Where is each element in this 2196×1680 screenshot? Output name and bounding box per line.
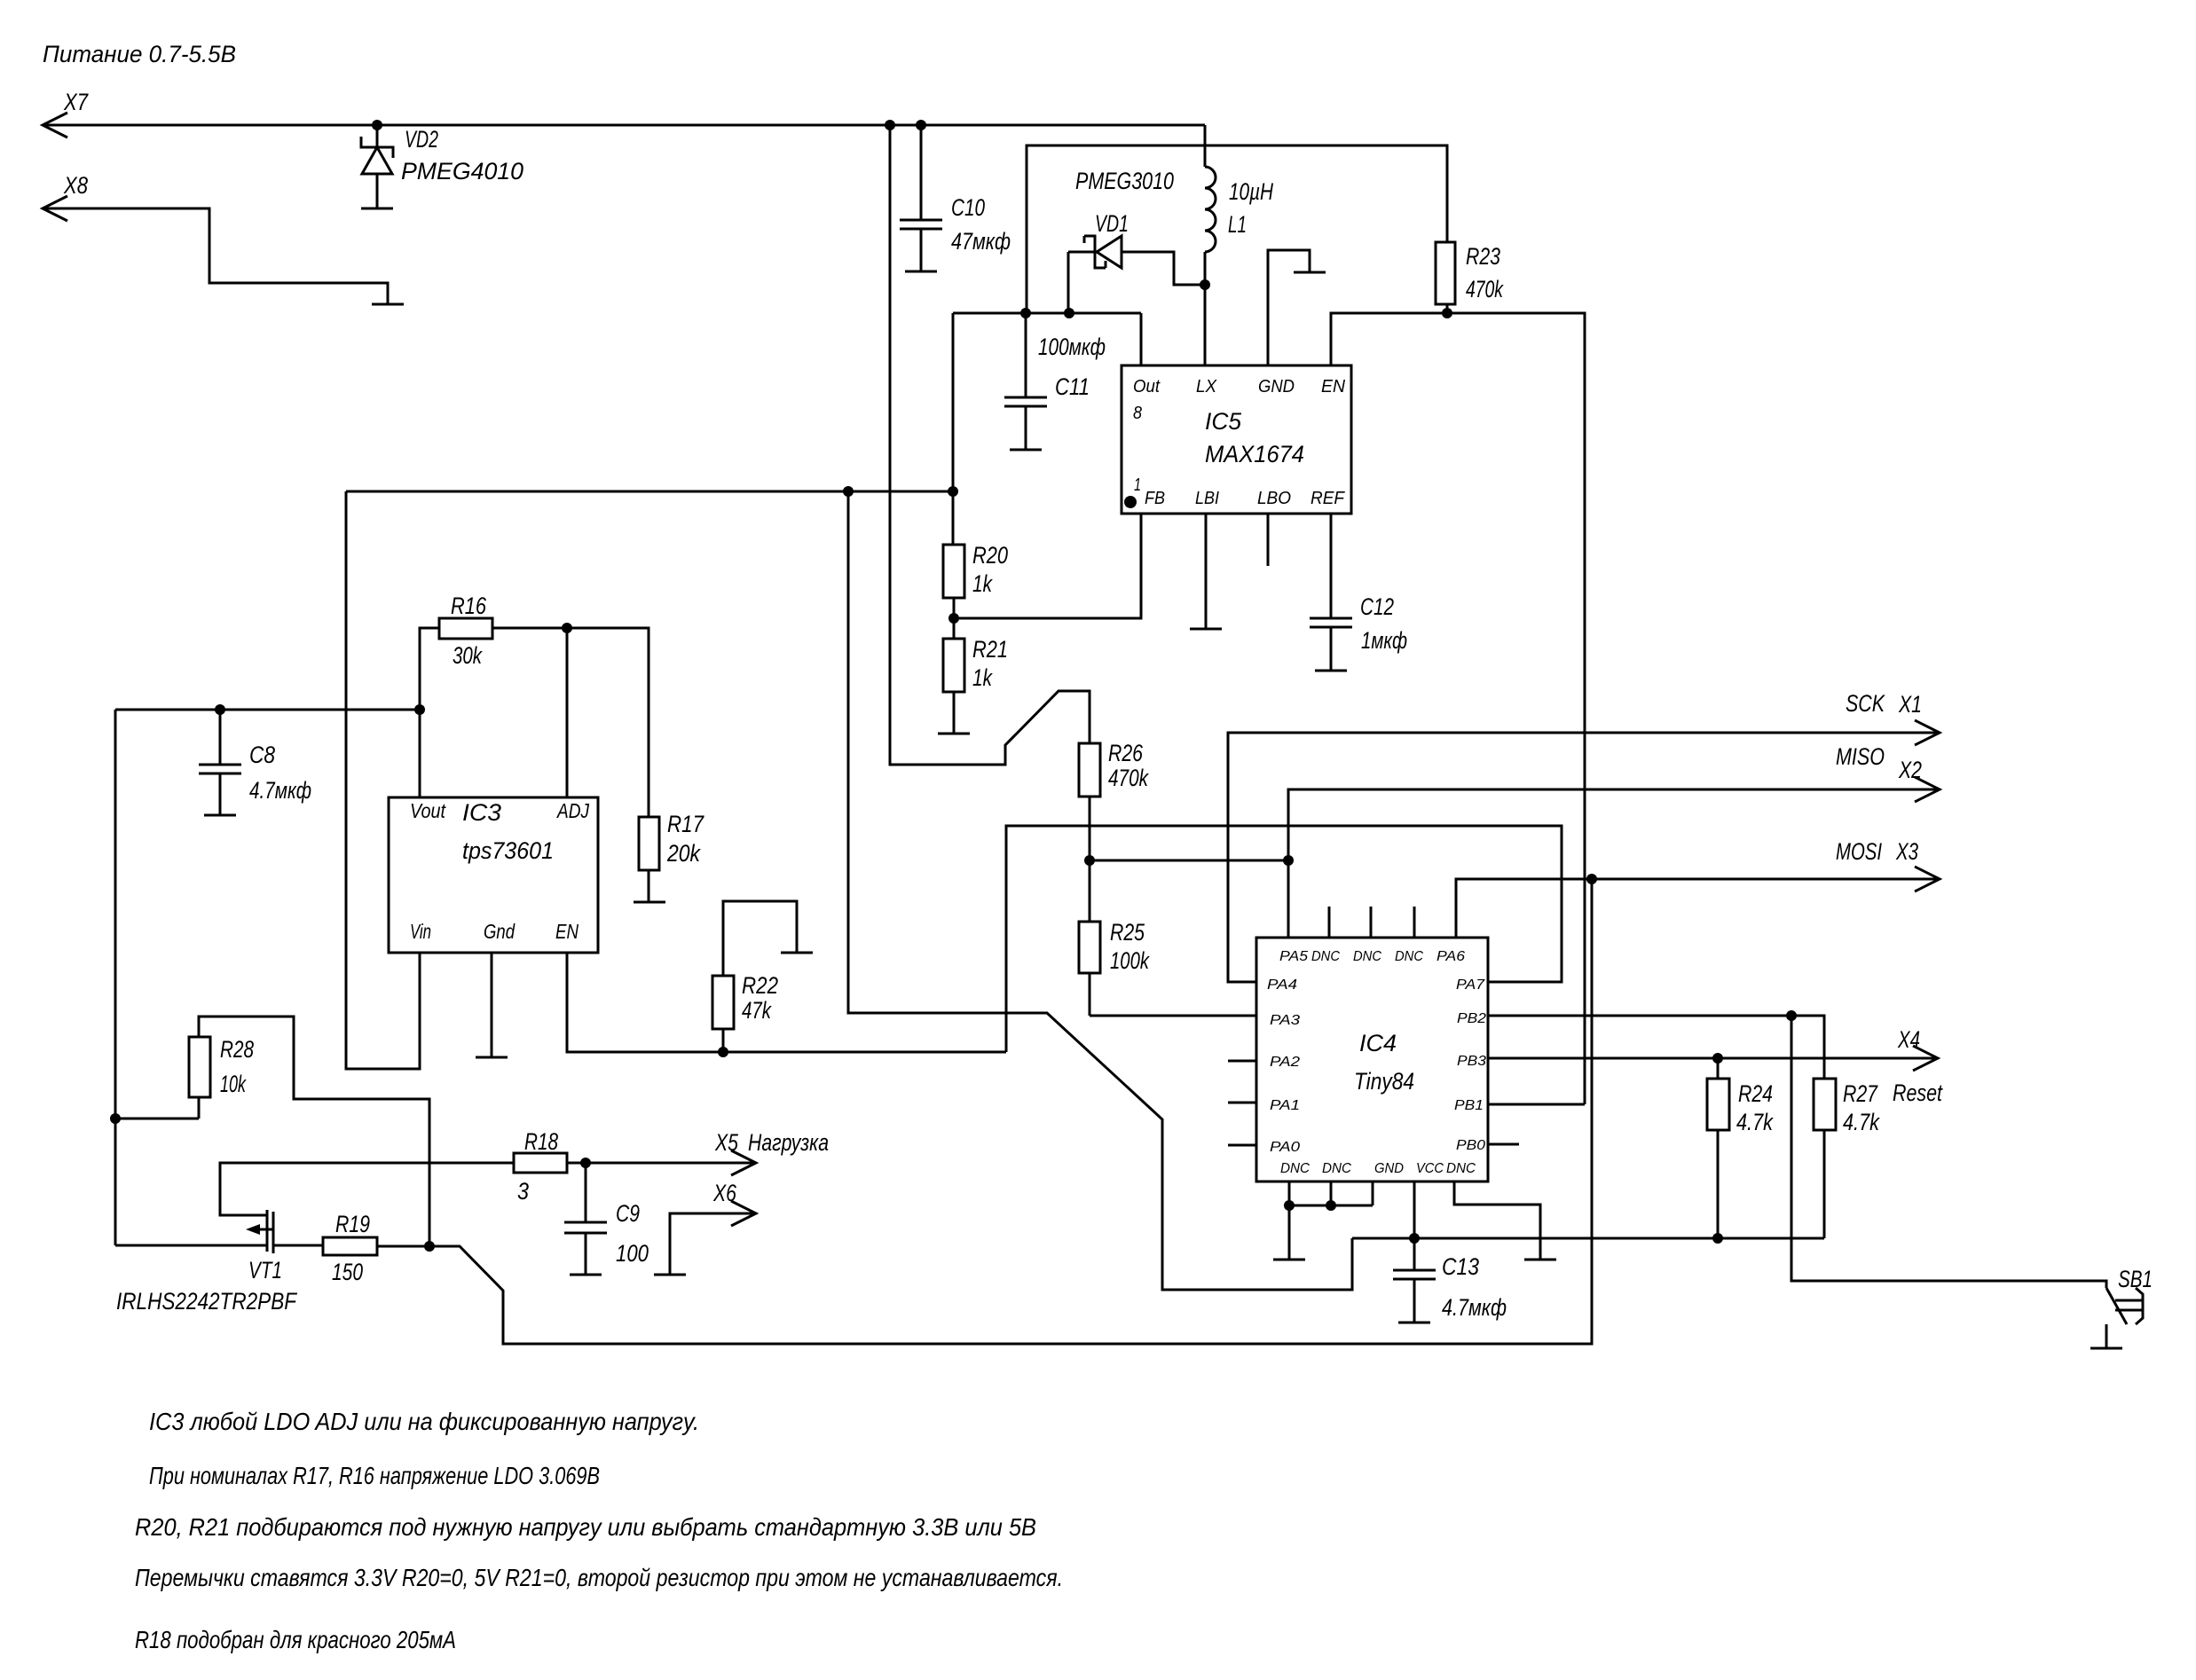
svg-text:VT1: VT1	[248, 1257, 282, 1284]
svg-text:X4: X4	[1897, 1026, 1920, 1053]
wire boost output top (Out to R23)	[1027, 145, 1447, 313]
capacitor C9	[564, 1163, 607, 1275]
ground X8	[372, 303, 404, 306]
svg-text:1: 1	[1134, 475, 1141, 495]
arrowhead X6	[731, 1201, 756, 1226]
resistor R19	[323, 1237, 429, 1255]
wire LDO-out node horizontal y554	[346, 491, 953, 493]
svg-text:R17: R17	[667, 811, 704, 837]
pin stub DNC (IC4 top 3)	[1413, 907, 1416, 938]
svg-text:LBI: LBI	[1195, 489, 1219, 508]
wire MOSI from PA6	[1456, 879, 1940, 938]
svg-text:C12: C12	[1360, 593, 1394, 620]
resistor R23	[1436, 242, 1455, 304]
svg-text:DNC: DNC	[1311, 949, 1340, 964]
pin stub DNC (IC4 top 1)	[1328, 907, 1331, 938]
capacitor C10	[900, 125, 942, 271]
svg-text:PA3: PA3	[1270, 1013, 1300, 1028]
pin DNC/GND bottom tie	[1289, 1181, 1373, 1259]
svg-text:1k: 1k	[972, 664, 993, 691]
svg-text:47k: 47k	[742, 997, 772, 1024]
pin PA0 stub	[1228, 1144, 1256, 1147]
svg-text:Vin: Vin	[410, 920, 431, 943]
junction R16-ADJ	[562, 623, 572, 633]
svg-text:DNC: DNC	[1446, 1161, 1476, 1176]
diode VD2	[361, 125, 393, 208]
svg-text:PB0: PB0	[1456, 1138, 1485, 1153]
resistor R21	[943, 618, 964, 733]
svg-text:VCC: VCC	[1416, 1161, 1444, 1176]
pin1 dot IC5	[1124, 496, 1137, 508]
svg-text:PMEG4010: PMEG4010	[401, 158, 523, 184]
svg-text:X8: X8	[63, 172, 88, 199]
svg-text:IRLHS2242TR2PBF: IRLHS2242TR2PBF	[116, 1288, 297, 1315]
svg-text:PB3: PB3	[1457, 1054, 1486, 1069]
junction R28 rail	[110, 1113, 121, 1124]
junction PB2-SB1	[1786, 1010, 1797, 1021]
svg-text:Питание 0.7-5.5В: Питание 0.7-5.5В	[43, 41, 236, 67]
junction PA5 line	[1283, 855, 1294, 866]
svg-text:PA4: PA4	[1267, 977, 1297, 993]
capacitor C11	[1004, 313, 1047, 450]
svg-text:PA5: PA5	[1279, 949, 1308, 964]
ground SB1	[2090, 1347, 2122, 1350]
resistor R16	[420, 618, 567, 797]
wire X8	[43, 208, 388, 303]
junction C9 top	[580, 1158, 591, 1168]
ground X6	[654, 1274, 686, 1276]
junction R23-EN	[1442, 308, 1452, 318]
svg-text:MOSI: MOSI	[1836, 838, 1882, 865]
svg-text:R18 подобран для красного 205м: R18 подобран для красного 205мА	[135, 1626, 456, 1653]
svg-text:1k: 1k	[972, 570, 993, 597]
resistor R28	[189, 1017, 429, 1246]
svg-text:DNC: DNC	[1322, 1161, 1351, 1176]
svg-text:X7: X7	[63, 89, 89, 115]
ground IC3	[476, 1056, 508, 1059]
junction R24 top	[1712, 1053, 1723, 1064]
svg-text:GND: GND	[1258, 377, 1295, 396]
svg-text:LX: LX	[1196, 377, 1217, 396]
svg-text:IC3 любой LDO ADJ или на фикси: IC3 любой LDO ADJ или на фиксированную н…	[149, 1408, 699, 1435]
svg-text:47мкф: 47мкф	[951, 228, 1011, 255]
pin stub DNC (IC4 top 2)	[1370, 907, 1373, 938]
svg-text:IC5: IC5	[1205, 408, 1242, 435]
pin EN of IC3 wire	[567, 953, 1006, 1052]
svg-text:100мкф: 100мкф	[1038, 334, 1106, 360]
svg-text:30k: 30k	[453, 642, 483, 669]
svg-text:X3: X3	[1895, 838, 1918, 865]
pin FB link to divider	[954, 514, 1141, 618]
arrowhead X4	[1913, 1046, 1938, 1071]
svg-text:150: 150	[332, 1259, 363, 1285]
svg-text:DNC: DNC	[1395, 949, 1423, 964]
svg-text:8: 8	[1133, 404, 1142, 423]
IC IC5 MAX1674 box	[1122, 365, 1351, 514]
svg-text:10µH: 10µH	[1229, 178, 1273, 205]
svg-text:REF: REF	[1311, 489, 1346, 508]
ground LBI	[1190, 628, 1222, 631]
svg-text:SB1: SB1	[2118, 1266, 2153, 1292]
wire SB1 branch	[1791, 1016, 2106, 1288]
terminal bar R22	[781, 952, 813, 954]
ground GND IC5	[1294, 271, 1326, 274]
svg-text:20k: 20k	[666, 840, 701, 867]
svg-text:При номиналах R17, R16 напряже: При номиналах R17, R16 напряжение LDO 3.…	[149, 1462, 600, 1489]
wire EN net up and over to PA7	[1006, 826, 1562, 1052]
svg-text:100k: 100k	[1110, 947, 1150, 974]
wire L1 to LX node	[1204, 252, 1207, 285]
svg-text:X6: X6	[712, 1180, 737, 1206]
junction VD2-X7	[372, 120, 382, 130]
svg-text:R21: R21	[972, 636, 1008, 663]
svg-text:VD1: VD1	[1095, 210, 1129, 237]
junction R20-R21-FB	[948, 613, 959, 624]
junction C10 top	[916, 120, 926, 130]
svg-text:EN: EN	[555, 920, 579, 943]
pin PA1 stub	[1228, 1102, 1256, 1104]
wire X7 rail	[43, 124, 1205, 127]
svg-text:PB2: PB2	[1457, 1011, 1486, 1026]
svg-text:ADJ: ADJ	[555, 799, 589, 822]
svg-text:470k: 470k	[1108, 765, 1149, 791]
svg-text:1мкф: 1мкф	[1361, 627, 1407, 654]
svg-text:R23: R23	[1466, 243, 1500, 270]
diode VD1	[1068, 236, 1205, 285]
arrowhead X5	[731, 1150, 756, 1175]
wire battery rail down to R26	[890, 125, 1090, 765]
wire Out node horizontal	[953, 312, 1141, 315]
junction C10 left	[885, 120, 895, 130]
svg-text:R20: R20	[972, 542, 1008, 569]
arrowhead X1	[1915, 720, 1940, 745]
arrowhead X7	[43, 113, 67, 137]
junction R26-R25	[1084, 855, 1095, 866]
wire EN of IC5 to right rail down to PB1	[1331, 313, 1585, 1104]
wire PB3 X4 line	[1488, 1057, 1938, 1060]
svg-text:Gnd: Gnd	[484, 920, 516, 943]
pin LX stub	[1204, 285, 1207, 365]
svg-text:VD2: VD2	[405, 126, 438, 153]
svg-text:R26: R26	[1108, 740, 1144, 766]
pin PA2 stub	[1228, 1060, 1256, 1063]
wire R23 bottom / EN net	[1446, 304, 1449, 313]
svg-text:X5: X5	[714, 1129, 739, 1156]
svg-text:Tiny84: Tiny84	[1354, 1068, 1414, 1095]
junction DNC2	[1326, 1200, 1336, 1211]
junction C11 node	[1020, 308, 1031, 318]
svg-text:4.7k: 4.7k	[1736, 1109, 1774, 1135]
svg-text:FB: FB	[1145, 489, 1165, 508]
pin Gnd of IC3 to ground	[491, 953, 493, 1056]
junction DNC1	[1284, 1200, 1295, 1211]
svg-text:PA6: PA6	[1436, 949, 1465, 964]
svg-text:GND: GND	[1374, 1161, 1404, 1176]
wire R26 bottom	[1089, 797, 1091, 860]
svg-text:C13: C13	[1442, 1253, 1479, 1280]
svg-text:PA7: PA7	[1456, 977, 1485, 993]
resistor R26	[1079, 743, 1100, 797]
junction VD1 node	[1064, 308, 1074, 318]
wire R16 node to R17	[567, 628, 649, 817]
pin DNC right to ground	[1454, 1181, 1540, 1259]
wire PA3 line	[1090, 1015, 1256, 1017]
wire X7 down to L1	[1204, 125, 1207, 167]
svg-text:R18: R18	[524, 1128, 558, 1155]
svg-text:R28: R28	[220, 1036, 254, 1063]
junction R24 bottom	[1712, 1233, 1723, 1244]
pin GND of IC5 to ground	[1268, 250, 1310, 365]
svg-text:4.7k: 4.7k	[1843, 1109, 1880, 1135]
junction y554-VCC branch	[843, 486, 854, 497]
resistor R17	[639, 817, 659, 901]
inductor L1	[1205, 167, 1216, 252]
svg-text:R20, R21 подбираются под нужну: R20, R21 подбираются под нужную напругу …	[135, 1513, 1036, 1541]
wire R26 node to PA5 line	[1090, 860, 1288, 862]
wire Vin branch from y554	[346, 491, 420, 1069]
svg-text:LBO: LBO	[1257, 489, 1291, 508]
resistor R27	[1814, 1079, 1836, 1238]
svg-text:R22: R22	[742, 972, 778, 999]
svg-text:3: 3	[517, 1178, 529, 1205]
wire VT1 gate line with R18	[220, 1163, 514, 1215]
wire R18 to X5	[567, 1162, 756, 1165]
wire PB1 line	[1488, 1103, 1585, 1106]
svg-text:Перемычки ставятся 3.3V R20=0,: Перемычки ставятся 3.3V R20=0, 5V R21=0,…	[135, 1564, 1063, 1591]
wire VCC branch from y554 via diagonal	[848, 491, 1352, 1290]
svg-text:Нагрузка: Нагрузка	[748, 1129, 829, 1156]
svg-text:4.7мкф: 4.7мкф	[1442, 1294, 1507, 1321]
junction VCC-C13	[1409, 1233, 1420, 1244]
svg-text:Out: Out	[1133, 377, 1161, 396]
svg-text:100: 100	[616, 1240, 649, 1267]
wire bottom link to MOSI	[429, 879, 1592, 1344]
transistor VT1	[115, 1210, 323, 1253]
resistor R24	[1707, 1058, 1729, 1238]
wire VCC line	[1352, 1237, 1824, 1240]
svg-text:X2: X2	[1898, 757, 1922, 783]
svg-text:R25: R25	[1110, 919, 1145, 946]
pin ADJ stub	[566, 628, 569, 797]
svg-text:MAX1674: MAX1674	[1205, 441, 1304, 467]
wire MISO from PA5	[1288, 789, 1940, 938]
svg-text:R24: R24	[1738, 1080, 1773, 1107]
switch SB1	[2106, 1288, 2143, 1347]
wire LDO output rail y800	[115, 709, 420, 711]
wire Out node down-left	[952, 313, 955, 491]
resistor R20	[943, 491, 964, 618]
ground R21	[938, 733, 970, 735]
svg-text:R27: R27	[1843, 1080, 1878, 1107]
svg-text:R16: R16	[451, 593, 487, 619]
wire PB2 line	[1488, 1016, 1824, 1079]
svg-text:R19: R19	[335, 1211, 370, 1237]
svg-text:PA1: PA1	[1270, 1098, 1300, 1113]
arrowhead X3	[1915, 867, 1940, 891]
pin LBO stub	[1267, 514, 1270, 566]
arrowhead X2	[1915, 777, 1940, 802]
arrowhead X8	[43, 196, 67, 221]
IC IC4 Tiny84 box	[1256, 938, 1488, 1181]
svg-text:SCK: SCK	[1846, 690, 1885, 717]
svg-text:DNC: DNC	[1280, 1161, 1310, 1176]
junction R22 bottom	[718, 1047, 728, 1057]
capacitor C8	[199, 710, 241, 815]
junction C8 top	[215, 704, 225, 715]
capacitor C13	[1393, 1238, 1436, 1323]
svg-text:EN: EN	[1321, 377, 1346, 396]
pin Out stub	[1140, 313, 1143, 365]
capacitor C12	[1310, 618, 1352, 671]
ground IC4 left	[1273, 1259, 1305, 1261]
pin PB0 stub	[1488, 1143, 1519, 1146]
svg-text:PMEG3010: PMEG3010	[1075, 168, 1174, 194]
svg-text:IC3: IC3	[462, 799, 501, 826]
svg-text:PB1: PB1	[1454, 1098, 1484, 1113]
pin LBI to ground	[1205, 514, 1208, 628]
svg-text:MISO: MISO	[1836, 743, 1885, 770]
wire R28 bottom to rail	[115, 1118, 199, 1120]
resistor R22	[712, 901, 797, 1052]
junction Vout vertical	[414, 704, 425, 715]
svg-text:10k: 10k	[220, 1071, 247, 1097]
junction R19-gate node	[424, 1241, 435, 1252]
svg-text:PA0: PA0	[1270, 1140, 1300, 1155]
pin VCC stub	[1413, 1181, 1416, 1238]
svg-text:L1: L1	[1228, 211, 1247, 238]
resistor R18	[514, 1153, 567, 1173]
svg-text:X1: X1	[1898, 691, 1922, 718]
svg-text:C11: C11	[1055, 373, 1090, 400]
svg-text:tps73601: tps73601	[462, 837, 554, 864]
IC IC3 tps73601 box	[389, 797, 598, 953]
wire SCK from PA4	[1228, 733, 1940, 982]
wire VD1 cathode down	[1067, 252, 1070, 313]
junction LX node	[1200, 279, 1210, 290]
svg-text:DNC: DNC	[1353, 949, 1381, 964]
svg-text:C9: C9	[616, 1200, 640, 1227]
ground IC4 right	[1524, 1259, 1556, 1261]
wire X6	[670, 1213, 756, 1274]
svg-text:4.7мкф: 4.7мкф	[249, 777, 311, 804]
wire left rail	[114, 710, 117, 1245]
svg-text:C8: C8	[249, 742, 275, 768]
pin REF stub	[1330, 514, 1333, 618]
resistor R25	[1079, 860, 1100, 1016]
svg-text:PA2: PA2	[1270, 1055, 1300, 1070]
svg-text:470k: 470k	[1466, 276, 1504, 302]
svg-text:IC4: IC4	[1359, 1030, 1397, 1056]
svg-text:Vout: Vout	[410, 799, 446, 822]
svg-text:Reset: Reset	[1893, 1079, 1943, 1106]
ground R17	[634, 901, 665, 904]
junction y554-R20	[948, 486, 958, 497]
junction MOSI drop	[1586, 874, 1597, 884]
svg-text:C10: C10	[951, 194, 985, 221]
